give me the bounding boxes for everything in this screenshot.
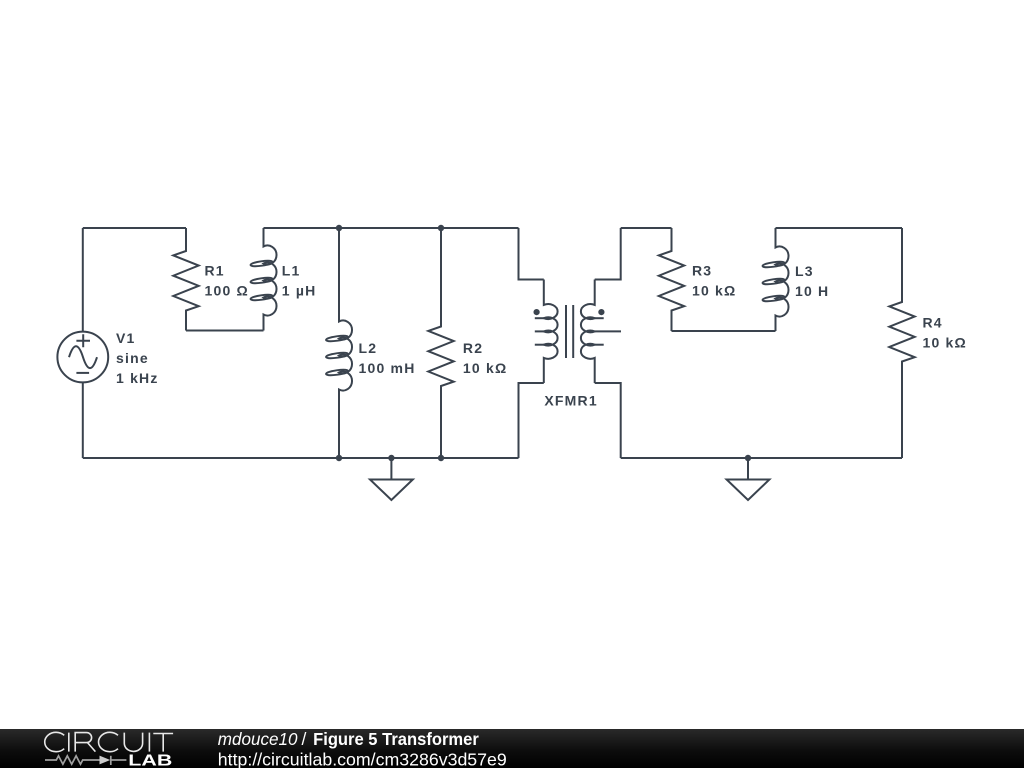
L1 loop 1 [250, 260, 273, 268]
logo CIRCUIT letter C [45, 732, 173, 751]
primary junction stub 2 [535, 330, 544, 332]
secondary tap stub [595, 330, 621, 332]
svg-text:1 µH: 1 µH [282, 283, 317, 299]
wire V1 top vertical [82, 228, 84, 332]
wire secondary bottom jog [595, 383, 621, 458]
logo letter I [68, 733, 70, 752]
ground left triangle [370, 480, 413, 501]
wire top rail C [621, 227, 672, 229]
inductor L2 [339, 228, 352, 458]
transformer XFMR1 primary winding [544, 280, 558, 384]
resistor R2 [428, 228, 453, 458]
wire top rail A [83, 227, 186, 229]
svg-text:LAB: LAB [128, 752, 172, 768]
ground left stub [390, 458, 392, 480]
wire V1 bottom vertical [82, 382, 84, 458]
L2 loop 2 [326, 352, 349, 360]
wire left mesh to primary top jog [519, 228, 544, 280]
logo letter R [75, 733, 95, 752]
wire secondary top jog [595, 228, 621, 280]
svg-text:100 Ω: 100 Ω [205, 283, 249, 299]
logo letter I2 [148, 733, 150, 752]
logo resistor-diode squiggle [45, 756, 126, 765]
L1 loop 3 [250, 294, 273, 302]
svg-text:L3: L3 [795, 263, 814, 279]
svg-text:http://circuitlab.com/cm3286v3: http://circuitlab.com/cm3286v3d57e9 [218, 750, 507, 768]
svg-text:mdouce10: mdouce10 [218, 729, 298, 749]
svg-text:/: / [302, 729, 307, 749]
secondary junction stub 3 [595, 344, 604, 346]
svg-text:XFMR1: XFMR1 [544, 393, 597, 409]
junction dot bottom ground right [745, 455, 751, 461]
svg-text:R3: R3 [692, 263, 712, 279]
resistor R4 [889, 228, 914, 458]
resistor R3 [659, 228, 684, 331]
logo letter U [124, 733, 142, 752]
primary junction stub 1 [535, 317, 544, 319]
wire bottom rail right [621, 457, 902, 459]
svg-text:R4: R4 [923, 315, 943, 331]
junction dot top L2 [336, 225, 342, 231]
wire bottom rail left [83, 457, 519, 459]
V1 plus sign [76, 334, 90, 347]
svg-text:R2: R2 [463, 340, 483, 356]
L2 loop 1 [326, 335, 349, 343]
svg-text:100 mH: 100 mH [359, 360, 416, 376]
ground right stub [747, 458, 749, 480]
svg-text:R1: R1 [205, 263, 225, 279]
svg-text:sine: sine [116, 350, 149, 366]
voltage source V1 circle [57, 332, 108, 383]
svg-text:10 kΩ: 10 kΩ [923, 335, 967, 351]
wire primary bottom jog [519, 383, 544, 458]
junction dot bottom R2 [438, 455, 444, 461]
L3 loop 3 [762, 295, 785, 303]
L3 loop 1 [762, 261, 785, 269]
L2 loop 3 [326, 369, 349, 377]
svg-text:10 kΩ: 10 kΩ [463, 360, 507, 376]
primary phase dot [534, 309, 540, 315]
svg-text:L2: L2 [359, 340, 378, 356]
secondary junction stub 1 [595, 317, 604, 319]
inductor L3 [776, 228, 789, 331]
transformer XFMR1 secondary winding [581, 280, 595, 384]
junction dot bottom L2 [336, 455, 342, 461]
wire top rail B [264, 227, 519, 229]
svg-text:L1: L1 [282, 263, 301, 279]
transformer core line 2 [572, 305, 574, 358]
junction dot top R2 [438, 225, 444, 231]
svg-text:10 kΩ: 10 kΩ [692, 283, 736, 299]
logo letter C2 [99, 732, 118, 751]
junction dot bottom ground left [388, 455, 394, 461]
primary junction stub 3 [535, 344, 544, 346]
svg-text:Figure 5 Transformer: Figure 5 Transformer [313, 729, 479, 749]
logo diode triangle [100, 756, 111, 765]
secondary phase dot [598, 309, 604, 315]
V1 minus sign [76, 372, 89, 374]
ground right triangle [727, 480, 770, 501]
svg-text:1 kHz: 1 kHz [116, 370, 159, 386]
L1 loop 2 [250, 277, 273, 285]
V1 sine wave [69, 346, 97, 368]
logo letter T [153, 734, 173, 752]
svg-text:V1: V1 [116, 330, 136, 346]
inductor L1 [264, 228, 277, 331]
wire R1-L1 bottom [186, 330, 264, 332]
L3 loop 2 [762, 278, 785, 286]
transformer core line 1 [565, 305, 567, 358]
wire R3-L3 bottom [672, 330, 776, 332]
wire top rail D [776, 227, 903, 229]
svg-text:10 H: 10 H [795, 283, 829, 299]
resistor R1 [173, 228, 198, 331]
